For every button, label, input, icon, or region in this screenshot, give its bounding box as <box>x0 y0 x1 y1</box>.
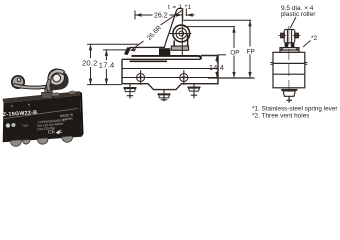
svg-text:t = 1 *1: t = 1 *1 <box>168 4 192 11</box>
ext line OP <box>184 26 236 28</box>
lever base plate (thick dark) <box>132 56 201 59</box>
svg-text:FP: FP <box>247 48 255 55</box>
front view center line <box>288 26 290 103</box>
ext line 17.4 top <box>103 49 129 51</box>
dim 20.2 <box>89 44 92 84</box>
dim OP <box>232 27 235 78</box>
svg-text:TUV: TUV <box>22 123 28 128</box>
photo body right side <box>79 91 84 137</box>
body seam line 2 <box>122 77 218 79</box>
roller (side view) <box>173 25 190 42</box>
terminal screw S2 <box>180 70 188 85</box>
front view fork <box>280 43 299 53</box>
front view roller <box>279 29 301 42</box>
roller crosshair horizontal <box>169 33 192 35</box>
ext line bottom left <box>87 84 122 86</box>
svg-text:20.2: 20.2 <box>82 59 98 68</box>
photo body top face <box>3 91 81 103</box>
photo lever arm <box>13 84 47 89</box>
svg-text:plastic roller: plastic roller <box>281 11 317 18</box>
photo fork near arm <box>46 79 51 91</box>
front view body <box>270 52 307 88</box>
svg-text:CE: CE <box>48 129 56 136</box>
svg-text:OP: OP <box>230 49 239 56</box>
bottom screw right <box>188 84 201 98</box>
svg-text:*2. Three vent holes: *2. Three vent holes <box>252 113 310 120</box>
terminal screw S1 <box>137 70 145 85</box>
photo bracket arch <box>48 69 65 80</box>
bottom screw left <box>124 84 137 99</box>
leader *2 <box>303 41 311 48</box>
photo roller <box>48 69 64 85</box>
photo of switch <box>3 69 84 146</box>
leader 9.5 dia <box>290 17 296 28</box>
ref line bottom <box>208 77 255 79</box>
dim 17.4 <box>105 50 108 85</box>
side view body outline <box>122 56 218 90</box>
svg-text:*2: *2 <box>311 35 318 42</box>
photo spring <box>45 87 52 99</box>
lever tip (t=1) <box>183 8 187 19</box>
dim 14.4 <box>215 55 218 78</box>
photo roller fork dark <box>46 70 68 92</box>
dim FP <box>248 20 251 78</box>
front view bottom screw <box>281 89 297 102</box>
photo plunger collar <box>42 93 53 99</box>
lever steep section <box>164 8 182 47</box>
dim 26.2 <box>135 11 182 20</box>
roller crosshair vertical <box>181 9 183 56</box>
roller bracket <box>171 35 188 51</box>
lever flat section <box>129 46 165 48</box>
svg-text:*1. Stainless-steel spring lev: *1. Stainless-steel spring lever <box>252 106 338 113</box>
bottom screw middle <box>158 90 171 102</box>
ext line 14.4 top <box>218 54 226 56</box>
svg-text:17.4: 17.4 <box>99 61 115 70</box>
body seam line 1 <box>122 68 218 70</box>
ext line 20.2 top <box>87 43 139 45</box>
plunger (black) <box>159 48 170 56</box>
svg-text:26.2: 26.2 <box>154 12 168 19</box>
slot line on body <box>130 60 168 62</box>
photo printed text <box>3 91 78 136</box>
photo lever curl <box>12 76 24 88</box>
lever pivot tab <box>124 47 131 55</box>
ext line FP <box>182 19 251 21</box>
dim 26.6R leader <box>131 11 182 52</box>
svg-text:14.4: 14.4 <box>209 63 224 72</box>
photo bottom screws <box>10 136 72 146</box>
svg-text:26.6R: 26.6R <box>146 24 163 42</box>
photo body front face <box>3 95 82 142</box>
dim t=1 arrow <box>186 13 194 17</box>
